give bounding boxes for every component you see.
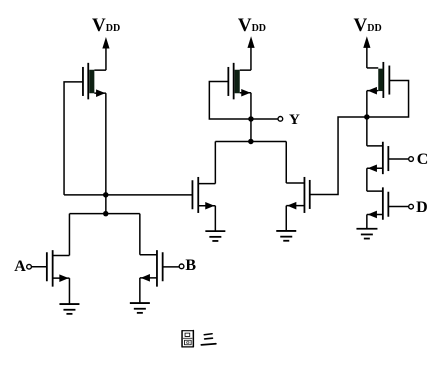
wire QD source to ground: [366, 214, 368, 228]
svg-text:VDD: VDD: [238, 15, 266, 36]
svg-text:VDD: VDD: [354, 15, 382, 36]
wire QC source to QD drain: [366, 168, 368, 191]
output terminal Y: [251, 117, 283, 122]
svg-text:Y: Y: [289, 112, 300, 128]
VDD supply 1: [92, 15, 120, 70]
ground QD: [356, 229, 377, 239]
wire Q4 gate to node S5: [310, 117, 367, 195]
transistor Q4: [286, 177, 310, 213]
junction node S5: [364, 114, 370, 120]
wire Q2 gate loop to Y: [209, 81, 251, 119]
wire Q1 gate: [64, 82, 83, 195]
junction node parallel rail: [103, 211, 109, 217]
svg-text:B: B: [185, 257, 196, 274]
depletion load transistor Q5: [367, 62, 390, 98]
transistor QD input D: [367, 187, 389, 219]
junction node drain rail: [248, 139, 254, 145]
VDD supply 3: [354, 15, 382, 68]
depletion load transistor Q2: [228, 63, 251, 99]
wire Q5 gate loop: [367, 80, 409, 117]
wire gate rail to Q3: [64, 194, 192, 196]
svg-text:D: D: [416, 199, 428, 216]
ground Q3: [205, 231, 225, 241]
svg-text:C: C: [417, 151, 429, 168]
input terminal B: [163, 264, 184, 269]
transistor QB input B: [140, 250, 163, 287]
transistor QA input A: [47, 250, 70, 287]
input terminal D: [388, 204, 413, 209]
input terminal A: [27, 264, 47, 269]
junction node Y: [248, 116, 254, 122]
junction node gate rail: [103, 192, 109, 198]
wire Q5 source to QC drain: [366, 91, 368, 146]
wire QA source to ground: [68, 278, 70, 304]
wire Q4 drain: [285, 141, 287, 183]
wire Q3 drain: [214, 141, 216, 183]
transistor Q3: [192, 177, 215, 213]
wire Q3 source to ground: [214, 206, 216, 231]
wire QB drain: [139, 214, 141, 255]
svg-text:VDD: VDD: [92, 15, 120, 36]
wire Q4 source to ground: [285, 206, 287, 231]
VDD supply 2: [238, 15, 266, 70]
wire drain rail: [215, 140, 286, 142]
caption figure three (Chinese): [182, 331, 216, 347]
wire QA drain: [68, 214, 70, 256]
svg-text:A: A: [14, 258, 26, 275]
depletion load transistor Q1: [83, 63, 106, 99]
input terminal C: [388, 157, 413, 162]
wire Q2 source down through Y node: [250, 93, 252, 142]
wire Q1 source down to parallel rail: [105, 93, 107, 214]
glyph TU (enclosure): [182, 331, 193, 347]
transistor QC input C: [367, 142, 389, 174]
wire QB source to ground: [139, 278, 141, 303]
ground QA: [59, 304, 79, 314]
ground Q4: [276, 231, 296, 241]
glyph SAN (three): [201, 334, 216, 345]
ground QB: [130, 303, 150, 313]
wire parallel rail: [69, 213, 139, 215]
